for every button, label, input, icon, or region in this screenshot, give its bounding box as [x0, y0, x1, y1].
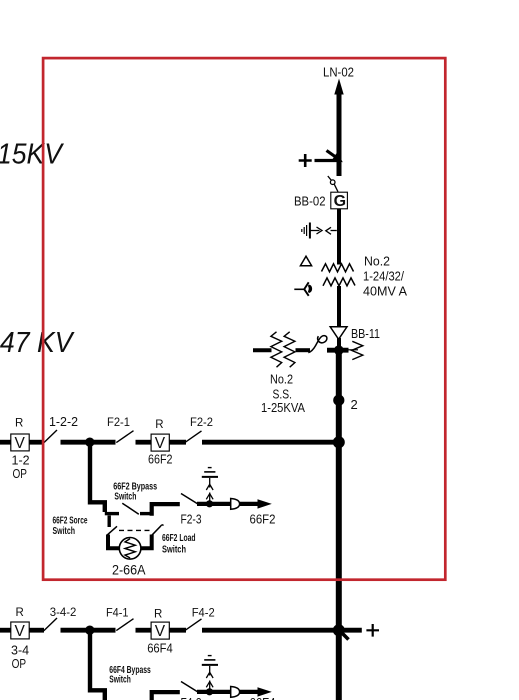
svg-text:66F2: 66F2: [148, 453, 173, 467]
wire F2 row segment c: [61, 440, 116, 445]
wire F4 row segment d: [136, 628, 152, 633]
wire F2 row segment f to bus: [202, 440, 335, 445]
svg-text:3-4-2: 3-4-2: [50, 605, 77, 619]
arrester zigzag 1: [271, 332, 282, 367]
meter V box 1-2: [11, 434, 29, 452]
svg-text:Switch: Switch: [53, 526, 76, 537]
svg-text:R: R: [16, 607, 24, 619]
svg-text:15KV: 15KV: [0, 139, 65, 171]
dashed link source switch: [119, 529, 150, 531]
switch blade 1-2-2: [44, 430, 57, 443]
junction cross at station service tap: [327, 345, 349, 355]
wire main bus top segment: [337, 92, 342, 176]
highlight box (red): [43, 58, 445, 580]
wire F2 bypass riser: [90, 442, 105, 512]
wire F4 bypass output segment: [197, 690, 231, 694]
svg-text:Switch: Switch: [109, 675, 131, 686]
wire loop right to device: [140, 535, 151, 549]
svg-text:2-66A: 2-66A: [112, 563, 146, 578]
junction dot F2 tap: [85, 438, 94, 447]
wire top feeder diagonal arrow into bus: [327, 151, 343, 163]
contact bar left (bypass drawout): [105, 512, 119, 515]
svg-text:66F2 Load: 66F2 Load: [162, 533, 196, 544]
svg-text:R: R: [155, 419, 163, 431]
svg-text:BB-02: BB-02: [294, 195, 326, 209]
svg-text:R: R: [154, 608, 162, 620]
contact bar right (bypass drawout): [140, 512, 150, 515]
switch blade 3-4-2: [44, 618, 57, 631]
connector D symbol: [231, 499, 240, 510]
svg-text:R: R: [15, 417, 23, 429]
wire feeder row F2 left stub: [0, 440, 11, 445]
label 66F2 Sorce Switch: [53, 516, 88, 537]
label 66F2 Load Switch: [162, 533, 196, 556]
junction dot bypass: [206, 500, 213, 507]
meter V box 3-4: [11, 622, 29, 640]
svg-text:66F2: 66F2: [250, 512, 276, 526]
wire F4 row right of bus: [343, 628, 362, 633]
svg-text:F2-3: F2-3: [181, 512, 202, 526]
svg-text:V: V: [15, 623, 26, 640]
svg-text:F2-1: F2-1: [107, 415, 130, 429]
svg-text:.47 KV: .47 KV: [0, 327, 75, 359]
ground symbol above F4-3: [202, 656, 218, 690]
wire F4 row segment f to bus: [202, 628, 335, 633]
breaker G box BB-02: [331, 192, 348, 210]
switch blade bypass: [122, 503, 139, 514]
svg-text:1-2-2: 1-2-2: [49, 415, 78, 429]
wire F4 row segment c: [61, 628, 116, 633]
junction dot F4 at bus: [333, 624, 345, 636]
station service tap mid stub: [296, 348, 311, 352]
node plus marker top feeder: [299, 154, 312, 167]
ground switch at bus: [302, 223, 337, 239]
svg-text:BB-11: BB-11: [351, 327, 380, 341]
svg-text:1-24/32/: 1-24/32/: [363, 270, 404, 284]
wire top feeder horizontal: [315, 159, 340, 162]
svg-text:OP: OP: [12, 657, 27, 671]
svg-text:No.2: No.2: [270, 373, 293, 387]
wire main bus arrowhead up: [334, 79, 343, 95]
svg-text:3-4: 3-4: [11, 644, 29, 658]
meter V box 66F4: [151, 622, 169, 640]
svg-text:No.2: No.2: [364, 255, 390, 269]
station service tap left stub: [253, 348, 272, 352]
switch blade F2-3: [181, 494, 198, 504]
wire feeder row F4 left stub: [0, 628, 11, 633]
switch blade F4-2: [185, 619, 202, 631]
arrester zigzag 2: [284, 332, 295, 367]
meter V box 66F2: [151, 434, 169, 452]
interrupter device 2-66A: [119, 538, 141, 560]
switch tick at F4 bus junction: [340, 631, 349, 640]
svg-text:OP: OP: [13, 467, 28, 481]
wire F4 row segment e: [170, 628, 187, 633]
transformer T1 delta winding symbol: [300, 256, 311, 266]
wire F4 bypass riser: [90, 630, 105, 700]
wire F4 row segment b: [29, 628, 44, 633]
wire bypass right elbow: [152, 504, 180, 516]
svg-text:66F4: 66F4: [147, 641, 173, 655]
transformer T1 secondary zigzag winding: [323, 278, 355, 286]
transformer T1 LTC arrow symbol: [294, 282, 312, 296]
wire bus below G box: [337, 209, 341, 265]
wire F2 row segment e: [170, 440, 187, 445]
svg-text:V: V: [155, 435, 166, 452]
arrester chevron zigzag right: [344, 341, 363, 359]
svg-text:G: G: [334, 193, 346, 210]
wire loop left to device: [108, 535, 120, 549]
label No.2 S.S. 1-25KVA: [261, 373, 306, 416]
svg-text:1-2: 1-2: [12, 454, 30, 468]
switch blade load right with hook: [151, 525, 164, 536]
node plus marker F4: [366, 624, 379, 637]
switch blade source left: [107, 526, 117, 535]
svg-text:V: V: [155, 623, 166, 640]
device BB-11 open triangle: [330, 327, 347, 340]
label 66F4 Bypass Switch: [109, 665, 151, 686]
switch blade F2-2: [185, 431, 202, 443]
wire bypass arrow to 66F2: [240, 499, 272, 508]
wire F4 bypass arrow to 66F4: [240, 687, 272, 696]
fuse curl symbol: [308, 336, 327, 353]
ground symbol above F2-3: [202, 468, 218, 502]
transformer T1 primary zigzag winding: [322, 264, 354, 272]
svg-text:66F4: 66F4: [250, 696, 276, 700]
switch blade F4-3: [181, 682, 198, 692]
wire F2 row segment b: [29, 440, 44, 445]
label transformer rating No.2 1-24/32/40MV A: [363, 255, 408, 299]
svg-text:F4-1: F4-1: [106, 605, 129, 619]
svg-text:V: V: [15, 435, 26, 452]
svg-text:2: 2: [351, 397, 358, 412]
svg-text:Switch: Switch: [162, 544, 186, 555]
svg-text:F4-3: F4-3: [181, 696, 202, 700]
wire bypass output segment: [197, 502, 231, 506]
junction dot F2 at bus: [333, 436, 345, 448]
label 1-2 OP: [12, 454, 30, 481]
connector D symbol F4: [231, 687, 240, 698]
svg-text:Switch: Switch: [114, 491, 136, 502]
svg-text:1-25KVA: 1-25KVA: [261, 401, 306, 415]
wire F2 row segment d: [136, 440, 152, 445]
junction dot F4 bypass: [206, 688, 213, 695]
svg-text:F2-2: F2-2: [190, 415, 213, 429]
wire bus below BB-11: [337, 338, 341, 352]
switch disconnect above BB-02: [328, 176, 338, 192]
svg-text:F4-2: F4-2: [192, 605, 215, 619]
wire main LV bus (lower, thick): [336, 350, 342, 700]
junction dot F4 tap: [85, 626, 94, 635]
svg-text:LN-02: LN-02: [323, 66, 354, 80]
node 2 junction dot: [333, 395, 344, 406]
label 3-4 OP: [11, 644, 29, 672]
label 66F2 Bypass Switch: [113, 482, 157, 503]
svg-text:S.S.: S.S.: [273, 388, 293, 402]
wire F4 bypass right elbow: [152, 692, 180, 700]
svg-text:40MV A: 40MV A: [363, 285, 408, 299]
wire bus below transformer: [337, 286, 341, 328]
contact stub left source switch: [107, 516, 110, 528]
switch blade F2-1: [116, 431, 133, 443]
switch blade F4-1: [116, 619, 133, 631]
